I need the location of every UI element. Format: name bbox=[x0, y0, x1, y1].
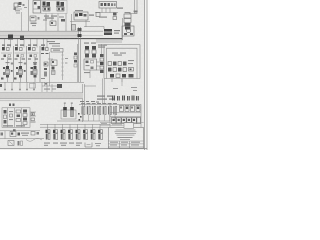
valve grid inside box row2 bbox=[108, 68, 127, 72]
wire bbox=[122, 18, 124, 40]
glyph cluster row bbox=[112, 96, 139, 101]
valve chain V6 bbox=[100, 54, 104, 73]
valve section S3 bbox=[28, 47, 39, 82]
wire bbox=[48, 58, 53, 60]
wire bbox=[45, 14, 47, 32]
bank detail marks bbox=[1, 53, 49, 80]
return manifold band bbox=[0, 93, 83, 101]
junction blob J1 bbox=[8, 35, 13, 40]
valve grid inside box row1 bbox=[108, 62, 127, 66]
bottom rail of valve bank bbox=[0, 81, 84, 83]
paper background bbox=[0, 0, 150, 150]
drain ladder wire bbox=[61, 52, 64, 80]
bottom valve row bbox=[46, 124, 103, 139]
stamp box above title bbox=[100, 122, 144, 128]
wire ties bbox=[97, 62, 105, 70]
wire pair from box to cylinder bus bbox=[103, 79, 123, 105]
tank heater bbox=[8, 141, 23, 146]
wire bbox=[51, 14, 53, 22]
drain dots bbox=[78, 113, 82, 121]
sheet border bottom bbox=[0, 148, 147, 150]
right lower block bbox=[110, 104, 141, 127]
title block bbox=[108, 128, 143, 148]
drain group bbox=[42, 82, 62, 92]
oil level curve bbox=[26, 138, 42, 141]
label bbox=[99, 17, 107, 18]
wire stubs from U1 bbox=[102, 8, 110, 13]
valve block B1 bbox=[33, 1, 41, 14]
supply manifold band bbox=[0, 31, 122, 38]
dark blocks D1 bbox=[104, 29, 120, 35]
cylinder bus bbox=[79, 103, 141, 105]
wire stub bbox=[121, 79, 123, 87]
solenoid chain Y1 bbox=[85, 46, 89, 58]
pilot unit marks bbox=[9, 104, 15, 107]
accumulator stack A1 bbox=[124, 12, 131, 30]
label bbox=[84, 72, 90, 73]
wire bbox=[70, 21, 90, 23]
valve section S1 bbox=[1, 47, 12, 82]
feed drop wires bbox=[5, 39, 48, 48]
cooler box bbox=[51, 46, 63, 53]
cylinder labels text bbox=[80, 96, 114, 103]
lower bus wires bbox=[0, 121, 110, 131]
gauge G1 bbox=[14, 2, 28, 31]
motor M1 bbox=[122, 26, 134, 36]
junction blob J1b bbox=[20, 36, 24, 41]
wire vertical top-left bbox=[28, 0, 30, 37]
wire exits bbox=[30, 112, 36, 123]
tank top line bbox=[0, 138, 44, 140]
pump P1b bbox=[56, 2, 64, 12]
box bottom rail bbox=[104, 78, 140, 80]
subsystem box outer bbox=[104, 45, 140, 79]
pump group P2 labels bbox=[84, 43, 107, 48]
junction pair J2 bbox=[78, 27, 82, 82]
breather valve bbox=[1, 129, 40, 138]
wire bbox=[89, 70, 91, 78]
cylinder row units bbox=[81, 103, 117, 121]
valve cluster V2 bbox=[74, 10, 94, 20]
pump unit P1 enclosure bbox=[41, 1, 67, 14]
valve bank sections bbox=[0, 39, 84, 82]
pilot block PB1 bbox=[2, 108, 30, 128]
bottom row labels bbox=[44, 143, 82, 146]
pump P1a bbox=[42, 2, 50, 12]
solenoid chain Y2 bbox=[92, 46, 96, 58]
big right box bbox=[104, 45, 140, 79]
valve grid inside box row3 bbox=[110, 60, 134, 78]
check valve CV1 bbox=[50, 21, 56, 26]
upper labels bbox=[113, 87, 137, 91]
wire bbox=[96, 36, 122, 40]
label row above valve bank bbox=[2, 41, 60, 46]
wire bbox=[65, 14, 67, 32]
wire arrow bbox=[84, 26, 104, 28]
wire bbox=[95, 12, 118, 14]
wire bbox=[49, 52, 51, 82]
valve section S2 bbox=[15, 47, 26, 82]
wire bbox=[96, 41, 122, 43]
wire bbox=[101, 44, 103, 54]
sheet border right inner bbox=[143, 0, 145, 150]
valve V4 bbox=[51, 60, 57, 75]
small tank symbol bbox=[85, 143, 101, 148]
wire bbox=[57, 14, 59, 32]
manifold box MB1 bbox=[84, 59, 97, 70]
wire bbox=[71, 14, 73, 32]
scan noise overlay bbox=[0, 0, 144, 149]
wire pair vertical bbox=[82, 84, 96, 122]
section divider wires bbox=[13, 46, 15, 82]
label ticks bbox=[65, 58, 68, 64]
right unit boxes bbox=[120, 106, 141, 112]
control box U1 bbox=[99, 2, 117, 9]
valve section S4 bbox=[42, 47, 49, 66]
wire bbox=[103, 27, 105, 30]
riser pipe to top edge bbox=[129, 0, 138, 14]
label bbox=[117, 8, 123, 9]
wire bbox=[77, 44, 79, 82]
twin pump unit bbox=[61, 103, 76, 120]
label row inside box bbox=[112, 53, 126, 56]
label row under P1 bbox=[43, 16, 65, 22]
filter F1 bbox=[30, 16, 40, 26]
gauge G2 bbox=[96, 13, 100, 17]
return ladder drops bbox=[0, 82, 36, 90]
valve chain V5 bbox=[74, 53, 77, 68]
sheet border right outer bbox=[146, 0, 148, 150]
subsystem box inner bbox=[107, 48, 138, 78]
relief valve RV1 bbox=[72, 20, 87, 30]
valve V3 bbox=[113, 13, 117, 20]
